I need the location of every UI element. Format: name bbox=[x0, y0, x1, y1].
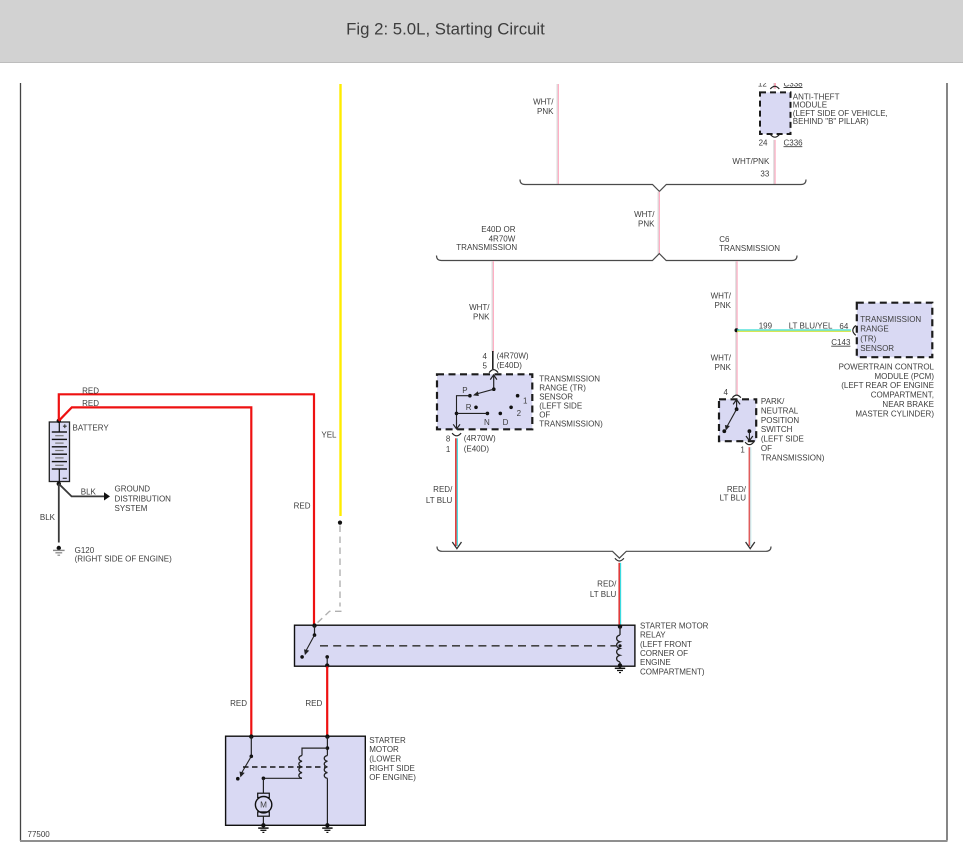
svg-text:BLK: BLK bbox=[40, 513, 56, 522]
svg-text:POSITION: POSITION bbox=[761, 416, 799, 425]
TR sensor wiper blade toward P bbox=[475, 389, 494, 394]
wire WHT/PNK bus1 to bus2 bbox=[657, 192, 659, 254]
TR sensor bottom connector arc bbox=[452, 433, 461, 436]
svg-text:TRANSMISSION): TRANSMISSION) bbox=[761, 454, 825, 463]
svg-text:SENSOR: SENSOR bbox=[860, 344, 894, 353]
wire RED relay to starter motor bbox=[326, 667, 328, 737]
svg-text:WHT/: WHT/ bbox=[711, 353, 732, 362]
svg-text:BEHIND "B" PILLAR): BEHIND "B" PILLAR) bbox=[793, 117, 869, 126]
svg-text:5: 5 bbox=[482, 362, 487, 371]
anti-theft module U1 box bbox=[760, 92, 791, 134]
solenoid coil L2 ground wire bbox=[326, 778, 328, 825]
starter input junction right bbox=[325, 734, 329, 738]
svg-text:YEL: YEL bbox=[321, 430, 337, 439]
svg-text:OF ENGINE): OF ENGINE) bbox=[369, 773, 416, 782]
svg-text:33: 33 bbox=[760, 170, 769, 179]
svg-text:COMPARTMENT,: COMPARTMENT, bbox=[871, 391, 934, 400]
connector C143 arc bbox=[853, 326, 856, 336]
starter linkage dashed bbox=[243, 766, 325, 768]
relay coil L1 bbox=[617, 635, 620, 662]
wire LT BLU/YEL to PCM TR sensor input bbox=[737, 329, 851, 331]
svg-text:M: M bbox=[260, 801, 267, 810]
svg-text:(LEFT REAR OF ENGINE: (LEFT REAR OF ENGINE bbox=[841, 381, 934, 390]
wire black segment at TR sensor pins bbox=[492, 351, 494, 369]
svg-text:TRANSMISSION): TRANSMISSION) bbox=[539, 420, 603, 429]
svg-text:8: 8 bbox=[446, 434, 451, 443]
svg-text:(4R70W): (4R70W) bbox=[497, 352, 529, 361]
white crop band bbox=[0, 63, 963, 83]
starter motor relay box bbox=[295, 625, 635, 666]
junction node at TR sensor tap bbox=[735, 328, 739, 332]
svg-text:C6: C6 bbox=[719, 235, 730, 244]
svg-text:MODULE (PCM): MODULE (PCM) bbox=[874, 372, 934, 381]
battery top stem bbox=[58, 422, 60, 432]
svg-text:LT BLU/YEL: LT BLU/YEL bbox=[789, 321, 833, 330]
battery plus sign bbox=[63, 425, 67, 427]
relay coil linkage node bbox=[618, 644, 621, 647]
svg-text:SWITCH: SWITCH bbox=[761, 425, 793, 434]
svg-text:1: 1 bbox=[523, 396, 528, 405]
svg-text:SYSTEM: SYSTEM bbox=[115, 504, 148, 513]
contact R bbox=[474, 406, 478, 410]
svg-text:(LEFT FRONT: (LEFT FRONT bbox=[640, 640, 692, 649]
relay coil ground stem bbox=[619, 662, 621, 665]
park/neutral input arrow (up) bbox=[733, 400, 740, 405]
splice bus 3 bbox=[437, 547, 771, 559]
wire WHT/PNK bus2 to TR sensor (left branch) bbox=[491, 261, 493, 352]
svg-text:RIGHT SIDE: RIGHT SIDE bbox=[369, 764, 415, 773]
svg-text:(E40D): (E40D) bbox=[497, 361, 523, 370]
contact N bbox=[486, 412, 490, 416]
wire WHT/PNK bus2 to park/neutral switch (right branch) bbox=[735, 261, 737, 395]
svg-text:RED/: RED/ bbox=[597, 580, 617, 589]
svg-text:(LEFT SIDE: (LEFT SIDE bbox=[761, 435, 804, 444]
relay coil wire bbox=[619, 627, 621, 635]
wire WHT/PNK from top to splice S (left drop) bbox=[556, 84, 558, 184]
park/neutral output arrow (down) bbox=[748, 431, 750, 440]
relay switch blade bbox=[306, 635, 315, 651]
svg-text:COMPARTMENT): COMPARTMENT) bbox=[640, 667, 705, 676]
splice bus 1 bbox=[520, 180, 806, 192]
svg-text:MASTER CYLINDER): MASTER CYLINDER) bbox=[855, 410, 934, 419]
wire BLK to ground distribution bbox=[59, 484, 105, 497]
relay output stem bbox=[326, 657, 328, 666]
svg-text:OF: OF bbox=[539, 411, 550, 420]
svg-text:D: D bbox=[503, 418, 509, 427]
svg-text:RELAY: RELAY bbox=[640, 631, 666, 640]
relay switch pivot bbox=[313, 633, 317, 637]
relay output junction bbox=[325, 663, 329, 667]
arrow into bus3 (right) bbox=[746, 542, 755, 549]
svg-text:(LOWER: (LOWER bbox=[369, 755, 401, 764]
wire YEL from top bbox=[339, 84, 341, 516]
svg-text:WHT/PNK: WHT/PNK bbox=[732, 157, 770, 166]
svg-text:C336: C336 bbox=[784, 138, 804, 147]
starter motor box bbox=[226, 736, 366, 825]
motor ground bbox=[258, 827, 268, 829]
wire BLK battery to G120 bbox=[58, 484, 60, 543]
svg-text:LT BLU: LT BLU bbox=[426, 496, 453, 505]
svg-text:199: 199 bbox=[759, 321, 773, 330]
battery positive junction bbox=[57, 419, 61, 423]
svg-text:(E40D): (E40D) bbox=[464, 445, 490, 454]
svg-text:1: 1 bbox=[740, 446, 745, 455]
solenoid coil L2 (hold-in) bbox=[324, 756, 327, 779]
svg-text:PARK/: PARK/ bbox=[761, 397, 785, 406]
svg-text:CORNER OF: CORNER OF bbox=[640, 649, 688, 658]
svg-text:4: 4 bbox=[482, 352, 487, 361]
ground distribution arrow bbox=[104, 492, 110, 500]
solenoid coil L1 (pull-in) bbox=[299, 756, 302, 779]
svg-text:WHT/: WHT/ bbox=[634, 210, 655, 219]
svg-text:PNK: PNK bbox=[537, 107, 554, 116]
transmission range sensor box (E40D/4R70W) bbox=[437, 374, 532, 429]
contact D bbox=[499, 412, 503, 416]
battery B1 box bbox=[49, 422, 69, 482]
svg-text:77500: 77500 bbox=[28, 830, 51, 839]
starter switch pivot bbox=[250, 755, 254, 759]
wire RED/LT BLU park/neutral to bus3 bbox=[748, 447, 750, 546]
wire stub above connector C338 bbox=[773, 83, 775, 89]
relay ground bbox=[615, 667, 625, 669]
TR sensor input arrow (up) bbox=[490, 375, 497, 380]
svg-text:STARTER: STARTER bbox=[369, 736, 406, 745]
svg-text:WHT/: WHT/ bbox=[711, 292, 732, 301]
frame bbox=[20, 83, 22, 841]
park/neutral pivot bbox=[735, 407, 739, 411]
contact P bbox=[468, 394, 472, 398]
wire RED battery to relay bbox=[59, 394, 314, 625]
svg-text:PNK: PNK bbox=[715, 363, 732, 372]
splice bus 2 bbox=[437, 254, 798, 261]
svg-text:NEAR BRAKE: NEAR BRAKE bbox=[882, 400, 934, 409]
TR sensor wiper pivot bbox=[492, 387, 496, 391]
svg-text:(TR): (TR) bbox=[860, 334, 876, 343]
park/neutral output contact bbox=[748, 429, 752, 433]
relay input junction bbox=[312, 623, 316, 627]
starter switch stem bbox=[250, 737, 252, 757]
svg-text:GROUND: GROUND bbox=[115, 484, 151, 493]
TR sensor output arrow (down) bbox=[453, 424, 460, 429]
svg-text:P: P bbox=[462, 386, 467, 395]
arrow into bus3 (left) bbox=[452, 542, 461, 549]
svg-text:RED: RED bbox=[82, 387, 99, 396]
svg-text:TRANSMISSION: TRANSMISSION bbox=[539, 375, 600, 384]
TR sensor internal wiring P to output bbox=[457, 396, 470, 425]
svg-text:1: 1 bbox=[446, 445, 451, 454]
svg-text:4: 4 bbox=[724, 388, 729, 397]
svg-text:R: R bbox=[466, 403, 472, 412]
svg-text:C143: C143 bbox=[831, 338, 851, 347]
svg-text:(RIGHT SIDE OF ENGINE): (RIGHT SIDE OF ENGINE) bbox=[75, 555, 173, 564]
solenoid branch wire bbox=[302, 748, 327, 755]
starter input junction left bbox=[249, 734, 253, 738]
relay switch stem bbox=[314, 626, 316, 636]
svg-text:2: 2 bbox=[517, 409, 522, 418]
svg-text:(LEFT SIDE: (LEFT SIDE bbox=[539, 402, 582, 411]
starter switch blade bbox=[242, 756, 252, 773]
battery minus sign bbox=[63, 477, 67, 479]
battery plates short bbox=[55, 435, 63, 437]
battery bottom stem bbox=[58, 469, 60, 482]
svg-text:RED/: RED/ bbox=[433, 485, 453, 494]
park/neutral position switch box bbox=[719, 399, 756, 441]
ground G120 bbox=[57, 546, 61, 550]
solenoid ground bbox=[322, 827, 332, 829]
solenoid feed wire bbox=[326, 737, 328, 756]
svg-text:RED: RED bbox=[82, 399, 99, 408]
svg-text:WHT/: WHT/ bbox=[533, 97, 554, 106]
svg-text:RANGE: RANGE bbox=[860, 325, 888, 334]
wire RED/LT BLU from TR sensor to bus3 bbox=[455, 438, 457, 546]
wire WHT/PNK from anti-theft module to splice bbox=[773, 140, 775, 184]
svg-text:PNK: PNK bbox=[715, 301, 732, 310]
wire RED battery to starter motor bbox=[59, 407, 252, 736]
svg-text:ENGINE: ENGINE bbox=[640, 658, 671, 667]
transmission range sensor box (PCM input) bbox=[857, 303, 933, 358]
header bar bbox=[0, 0, 963, 62]
park/neutral blade bbox=[727, 409, 737, 426]
connector C336 arc bbox=[770, 135, 779, 138]
motor ground stem bbox=[262, 816, 264, 825]
svg-text:RED: RED bbox=[230, 699, 247, 708]
motor M1 bbox=[258, 793, 270, 797]
relay coil input junction bbox=[618, 624, 622, 628]
starter switch lower contact bbox=[236, 777, 240, 781]
dashed link YEL to relay bbox=[339, 526, 341, 607]
svg-text:OF: OF bbox=[761, 444, 772, 453]
svg-text:Fig 2: 5.0L, Starting Circuit: Fig 2: 5.0L, Starting Circuit bbox=[346, 19, 545, 38]
svg-text:N: N bbox=[484, 418, 490, 427]
svg-text:TRANSMISSION: TRANSMISSION bbox=[860, 315, 921, 324]
svg-text:MOTOR: MOTOR bbox=[369, 745, 399, 754]
svg-text:RANGE (TR): RANGE (TR) bbox=[539, 384, 586, 393]
svg-text:E40D OR: E40D OR bbox=[481, 225, 515, 234]
svg-text:LT BLU: LT BLU bbox=[720, 493, 747, 502]
contact 2 bbox=[509, 406, 513, 410]
svg-text:POWERTRAIN CONTROL: POWERTRAIN CONTROL bbox=[839, 362, 935, 371]
svg-text:24: 24 bbox=[759, 138, 768, 147]
wire RED/LT BLU bus3 to relay coil bbox=[618, 563, 620, 626]
svg-text:STARTER MOTOR: STARTER MOTOR bbox=[640, 621, 709, 630]
svg-text:64: 64 bbox=[839, 322, 848, 331]
svg-text:PNK: PNK bbox=[473, 312, 490, 321]
park/neutral bottom connector arc bbox=[745, 442, 754, 445]
svg-text:RED: RED bbox=[294, 502, 311, 511]
svg-text:PNK: PNK bbox=[638, 219, 655, 228]
svg-text:TRANSMISSION: TRANSMISSION bbox=[456, 243, 517, 252]
bus3 output connector arc bbox=[615, 558, 624, 561]
battery plates long bbox=[52, 431, 67, 433]
node end of YEL wire bbox=[338, 521, 342, 525]
svg-text:BLK: BLK bbox=[81, 487, 97, 496]
junction in TR sensor bbox=[455, 412, 459, 416]
svg-text:BATTERY: BATTERY bbox=[73, 424, 110, 433]
svg-text:(4R70W): (4R70W) bbox=[464, 434, 496, 443]
coil L1 to motor wire bbox=[263, 777, 302, 779]
svg-text:WHT/: WHT/ bbox=[469, 303, 490, 312]
park/neutral top connector arc bbox=[732, 395, 740, 398]
svg-text:TRANSMISSION: TRANSMISSION bbox=[719, 244, 780, 253]
TR sensor top connector arc bbox=[489, 370, 498, 373]
park/neutral lower contact bbox=[722, 429, 726, 433]
svg-text:NEUTRAL: NEUTRAL bbox=[761, 406, 799, 415]
connector C338 arc bbox=[770, 86, 779, 89]
svg-text:LT BLU: LT BLU bbox=[590, 590, 617, 599]
relay switch lower contact bbox=[300, 655, 304, 659]
contact 1 bbox=[516, 394, 520, 398]
svg-text:DISTRIBUTION: DISTRIBUTION bbox=[115, 494, 172, 503]
svg-text:SENSOR: SENSOR bbox=[539, 393, 573, 402]
battery negative junction bbox=[57, 482, 61, 486]
relay output contact bbox=[325, 655, 329, 659]
relay linkage dashed bbox=[320, 645, 616, 647]
svg-text:RED: RED bbox=[305, 699, 322, 708]
